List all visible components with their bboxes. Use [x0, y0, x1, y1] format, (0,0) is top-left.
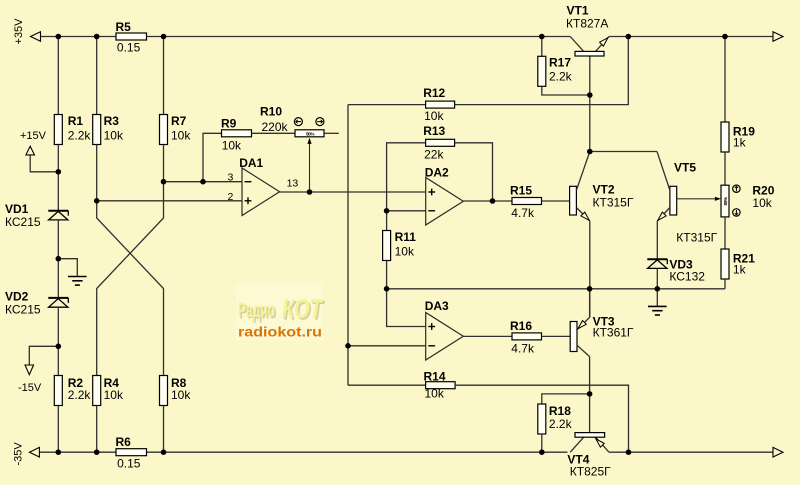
svg-text:VT2: VT2: [593, 183, 615, 197]
svg-text:R11: R11: [395, 230, 417, 244]
svg-text:10k: 10k: [171, 128, 191, 142]
resistor R17: [538, 37, 590, 96]
svg-text:КТ315Г: КТ315Г: [593, 196, 634, 210]
svg-text:0.15: 0.15: [117, 456, 141, 470]
svg-text:R6: R6: [116, 435, 132, 449]
svg-text:220k: 220k: [262, 120, 289, 134]
transistor VT4 KT825G: [567, 433, 611, 479]
wire bottom rail left segment (-35V input to VT4 collector): [39, 451, 567, 453]
resistor R2: [54, 376, 91, 406]
wire VT3 emitter up to reference line: [589, 289, 591, 318]
wire VD3 to reference line and ground: [656, 268, 658, 306]
svg-text:10k: 10k: [395, 245, 415, 259]
svg-text:VT1: VT1: [567, 4, 589, 18]
svg-text:10k: 10k: [104, 388, 124, 402]
svg-text:КТ825Г: КТ825Г: [570, 464, 611, 478]
resistor R1: [54, 114, 91, 145]
svg-text:10k: 10k: [171, 388, 191, 402]
ground (below VD3): [648, 306, 667, 315]
transistor VT1 KT827A: [566, 4, 609, 56]
resistor R16: [510, 319, 570, 356]
svg-text:1k: 1k: [733, 263, 747, 277]
wire reference line y=288.8 (to VD3 and R21): [387, 288, 725, 290]
svg-text:R14: R14: [424, 370, 446, 384]
svg-text:+15V: +15V: [20, 130, 47, 142]
op-amp DA3: [425, 299, 464, 360]
resistor R14: [348, 370, 629, 453]
svg-text:КС215: КС215: [5, 215, 41, 229]
op-amp DA2: [425, 165, 464, 225]
wire R8 to bottom rail: [163, 406, 165, 453]
node arrow -35V input (left): [29, 447, 39, 457]
resistor R7: [160, 114, 192, 145]
svg-text:1k: 1k: [733, 136, 747, 150]
resistor R9: [203, 116, 295, 181]
wire R1 to VD1: [57, 145, 59, 211]
svg-text:R15: R15: [510, 184, 532, 198]
wire VT1 base column: [589, 56, 591, 152]
svg-text:3: 3: [228, 172, 234, 184]
wire feedback bus x=348 (R12 left / DA3 - / R14 left): [347, 105, 349, 386]
svg-text:2: 2: [228, 191, 234, 203]
wire R4 to bottom rail: [96, 406, 98, 453]
node -15V tap: [18, 346, 58, 394]
resistor R21: [721, 249, 755, 289]
svg-text:10k: 10k: [104, 128, 124, 142]
potentiometer R20 10k: [721, 183, 775, 217]
node arrow output (bottom right): [773, 447, 783, 457]
transistor VT2 KT315G: [570, 152, 634, 221]
potentiometer R10 220k: [260, 105, 339, 192]
resistor R18: [538, 394, 590, 452]
node +15V tap: [20, 130, 58, 172]
svg-text:R3: R3: [104, 114, 120, 128]
zener VD2 KC215: [5, 290, 68, 317]
wire DA3 output to R16: [463, 335, 512, 337]
svg-text:КС215: КС215: [5, 303, 41, 317]
svg-text:КОТ: КОТ: [282, 294, 324, 324]
node arrow output (top right): [773, 32, 783, 42]
wire VD2 to R2: [57, 307, 59, 375]
svg-text:10k: 10k: [752, 196, 772, 210]
svg-text:-35V: -35V: [13, 442, 25, 466]
watermark radiokot: [236, 284, 325, 340]
svg-text:10k: 10k: [424, 109, 444, 123]
svg-text:+35V: +35V: [13, 18, 25, 45]
wire top rail right segment (VT1 emitter to output): [609, 36, 773, 38]
wire R7 column top: [163, 37, 165, 115]
svg-text:VD1: VD1: [5, 202, 29, 216]
svg-text:VT5: VT5: [674, 160, 696, 174]
wire VT5 base to R20 wiper: [677, 197, 721, 201]
svg-text:R7: R7: [171, 114, 187, 128]
resistor R4: [93, 376, 124, 406]
svg-text:4.7k: 4.7k: [511, 206, 535, 220]
transistor VT5 KT315G: [657, 152, 718, 245]
svg-text:DA3: DA3: [425, 299, 449, 313]
svg-text:КС132: КС132: [669, 270, 705, 284]
resistor R15: [510, 184, 570, 221]
resistor R19: [721, 37, 755, 186]
op-amp DA1: [239, 156, 279, 216]
svg-text:50%: 50%: [306, 131, 315, 137]
wire R20 to R21: [724, 217, 726, 249]
svg-text:R13: R13: [423, 124, 445, 138]
transistor VT3 KT361G: [570, 315, 634, 357]
svg-text:13: 13: [287, 178, 299, 190]
wire VT2/VT5 collectors junction line: [590, 151, 657, 153]
svg-text:-15V: -15V: [18, 382, 42, 394]
resistor R8: [160, 376, 192, 406]
svg-text:R17: R17: [549, 56, 571, 70]
wire R1 column top: [57, 37, 59, 115]
resistor R12: [348, 37, 628, 124]
zener VD3 KC132: [647, 258, 705, 284]
svg-text:DA2: DA2: [425, 165, 449, 179]
svg-text:0.15: 0.15: [117, 41, 141, 55]
resistor R13: [387, 124, 493, 211]
svg-text:4.7k: 4.7k: [511, 342, 535, 356]
ground (between VD1 and VD2): [58, 259, 86, 285]
svg-text:R1: R1: [68, 114, 84, 128]
svg-text:10k: 10k: [425, 387, 445, 401]
wire R3 column top: [96, 37, 98, 115]
wire DA1 pin3 input (from R7 bottom node): [164, 181, 243, 183]
wire top rail left segment (+35V input to VT1 collector): [41, 36, 571, 38]
wire DA2 - input: [387, 210, 426, 212]
svg-text:R9: R9: [221, 116, 237, 130]
svg-text:R10: R10: [260, 105, 282, 119]
wire DA3 - input (from feedback bus): [348, 345, 426, 347]
svg-text:VD2: VD2: [5, 290, 29, 304]
svg-text:КТ361Г: КТ361Г: [593, 325, 634, 339]
svg-text:R16: R16: [510, 319, 532, 333]
wire VT2 emitter down to reference line: [589, 221, 591, 318]
wire DA2 output to R15: [463, 200, 512, 202]
wire DA1 output to DA2 + input: [280, 191, 426, 193]
svg-text:Радио: Радио: [238, 299, 275, 322]
svg-text:КТ315Г: КТ315Г: [676, 231, 717, 245]
svg-text:2.2k: 2.2k: [549, 417, 573, 431]
resistor R5 (series in top rail): [116, 20, 147, 55]
svg-text:radiokot.ru: radiokot.ru: [238, 325, 322, 340]
wire R3 bottom to crossover: [97, 145, 164, 376]
wire VT5 emitter to VD3: [656, 221, 658, 259]
svg-text:2.2k: 2.2k: [68, 388, 92, 402]
svg-text:R12: R12: [423, 86, 445, 100]
svg-text:2.2k: 2.2k: [549, 70, 573, 84]
wire R2 to bottom rail: [57, 406, 59, 453]
svg-text:DA1: DA1: [239, 156, 263, 170]
svg-text:R5: R5: [116, 20, 132, 34]
resistor R3: [93, 114, 124, 145]
svg-text:10k: 10k: [222, 138, 242, 152]
zener VD1 KC215: [5, 202, 68, 229]
wire bottom rail right segment (VT4 emitter to output): [609, 451, 773, 453]
node junction dots: [56, 34, 728, 455]
node arrow +35V input (left): [31, 32, 41, 42]
svg-text:22k: 22k: [424, 148, 444, 162]
svg-text:2.2k: 2.2k: [68, 128, 92, 142]
wire R7 bottom to crossover: [97, 145, 164, 376]
resistor R6 (series in bottom rail): [116, 435, 147, 470]
wire VT3 collector down to VT4 base: [589, 357, 591, 433]
wire VD1 to VD2: [57, 220, 59, 298]
wire DA1 pin2 input (from R3 bottom node): [97, 200, 242, 202]
wire DA3 + input drop: [387, 289, 426, 327]
svg-text:50%: 50%: [723, 196, 729, 205]
svg-text:КТ827А: КТ827А: [566, 17, 608, 31]
resistor R11: [383, 211, 417, 289]
